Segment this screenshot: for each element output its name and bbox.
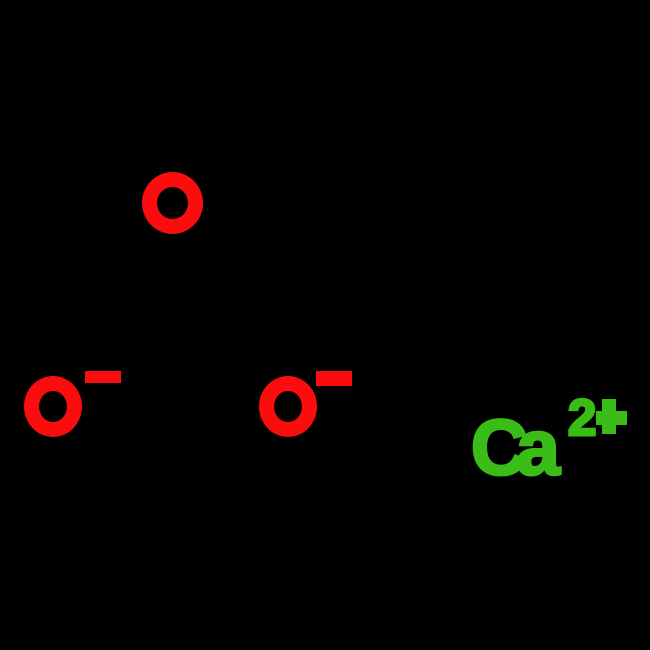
atom Ca (calcium cation label) [471,408,549,486]
charge plus of Ca2+ (horizontal bar) [596,411,627,425]
atom O3 (oxygen anion, middle) [259,376,317,437]
atom O2 (oxygen anion, left) [24,376,82,437]
charge minus of O2 [85,371,121,383]
charge 2 of Ca2+ [568,392,596,443]
atom O1 (carbonyl oxygen) [142,172,203,234]
charge plus of Ca2+ (vertical bar) [602,399,616,434]
charge minus of O3 [316,371,352,386]
